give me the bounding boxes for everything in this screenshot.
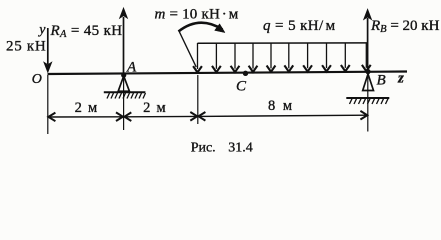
dim arrow left at O	[48, 113, 55, 122]
dim arrow right at B	[360, 111, 367, 120]
reaction force R_A arrow (up at A)	[120, 8, 128, 73]
node B dot	[365, 69, 370, 74]
svg-text:q = 5 кН/м: q = 5 кН/м	[263, 18, 336, 34]
beam (z axis line)	[48, 72, 408, 75]
pin support at A (triangle)	[118, 76, 129, 91]
extension line at A	[123, 76, 125, 130]
svg-text:RB = 20 кН: RB = 20 кН	[370, 18, 440, 35]
svg-text:O: O	[32, 72, 42, 87]
force 25 kN arrow (down at O)	[44, 28, 52, 72]
ground line at A	[104, 91, 146, 93]
node A dot	[121, 73, 126, 78]
svg-text:31.4: 31.4	[228, 141, 253, 156]
svg-text:Рис.: Рис.	[191, 141, 216, 156]
svg-text:C: C	[236, 79, 247, 95]
svg-text:2 м: 2 м	[75, 100, 99, 116]
extension line at load start	[197, 75, 199, 124]
ground hatching at B	[350, 99, 389, 104]
distributed load arrows	[193, 43, 371, 72]
svg-text:2 м: 2 м	[143, 100, 167, 116]
dim arrow left at load start	[199, 112, 206, 121]
dim arrow left at A	[124, 112, 131, 121]
svg-text:8 м: 8 м	[268, 98, 294, 114]
ground line at B	[346, 97, 389, 99]
extension line at B	[367, 74, 369, 132]
svg-text:B: B	[377, 72, 386, 88]
roller support at B (triangle)	[363, 74, 374, 91]
dimension line load-B	[198, 115, 367, 116]
point C dot	[243, 71, 248, 76]
extension line at O	[47, 75, 49, 134]
dimension line O-A	[48, 116, 123, 118]
moment arc arrowhead	[215, 24, 225, 33]
reaction force R_B arrow (up at B)	[364, 9, 372, 71]
svg-text:m = 10 кН·м: m = 10 кН·м	[155, 6, 239, 22]
ground hatching at A	[107, 93, 146, 99]
svg-text:25 кН: 25 кН	[6, 39, 46, 55]
svg-text:RA = 45 кН: RA = 45 кН	[50, 23, 123, 40]
svg-text:A: A	[126, 60, 137, 76]
dimension line A-load	[124, 115, 197, 117]
distributed load q top line	[198, 42, 368, 44]
moment m leader line to beam	[179, 30, 197, 67]
svg-text:y: y	[37, 23, 46, 38]
dim arrow right at A	[116, 112, 123, 121]
moment m curved arrow	[179, 23, 223, 32]
svg-text:z: z	[397, 71, 404, 87]
dim arrow right at load start	[190, 112, 197, 121]
